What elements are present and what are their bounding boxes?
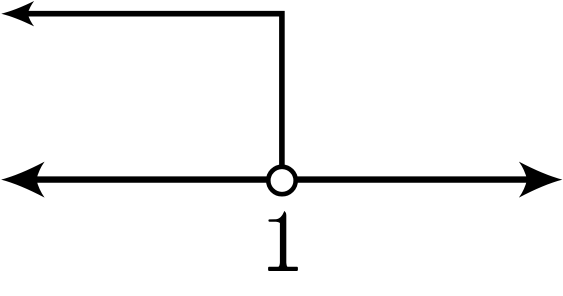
wire: upper horizontal ray with corner down to node at 1 xyxy=(20,14,282,180)
arrowhead: number line right, pointing right xyxy=(519,162,563,198)
node: open circle at 1 (excluded endpoint) xyxy=(268,167,295,194)
arrowhead: upper ray, pointing left xyxy=(1,1,34,26)
label: tick value 1 xyxy=(268,211,298,271)
arrowhead: number line left, pointing left xyxy=(1,162,45,198)
wire: main number line xyxy=(25,176,540,182)
